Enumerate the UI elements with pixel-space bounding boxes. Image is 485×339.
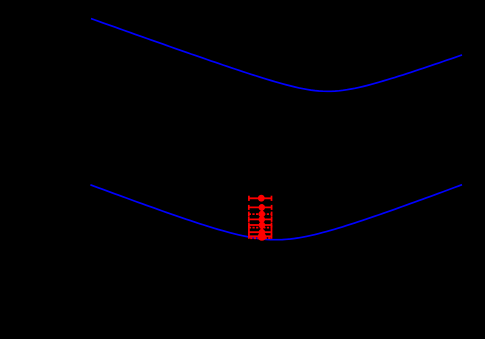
data point 3 dashed error bar (249, 212, 272, 217)
data point 8 marker (258, 232, 266, 240)
group 3 marker column (261, 222, 263, 240)
group 2 marker column (261, 204, 263, 223)
data point 9 dashed error bar (250, 237, 271, 239)
data point 4 error bar (249, 217, 272, 222)
data point 1 error bar (249, 196, 272, 201)
data point 7 error bar (249, 230, 272, 235)
data point 2 error bar (249, 205, 272, 210)
data point 6 dashed error bar (249, 225, 272, 230)
data point 2 marker (259, 204, 266, 211)
data point 5 error bar (249, 223, 272, 228)
data point 8 error bar (249, 234, 272, 239)
red data cluster (249, 195, 272, 241)
upper blue theory curve (91, 19, 462, 92)
data point 7 marker (259, 229, 266, 236)
data point 1 marker (258, 195, 265, 202)
data point 4 marker (259, 216, 266, 223)
data point 5 marker (259, 222, 266, 229)
lower blue theory curve (90, 185, 462, 240)
data point 3 marker (259, 211, 266, 218)
